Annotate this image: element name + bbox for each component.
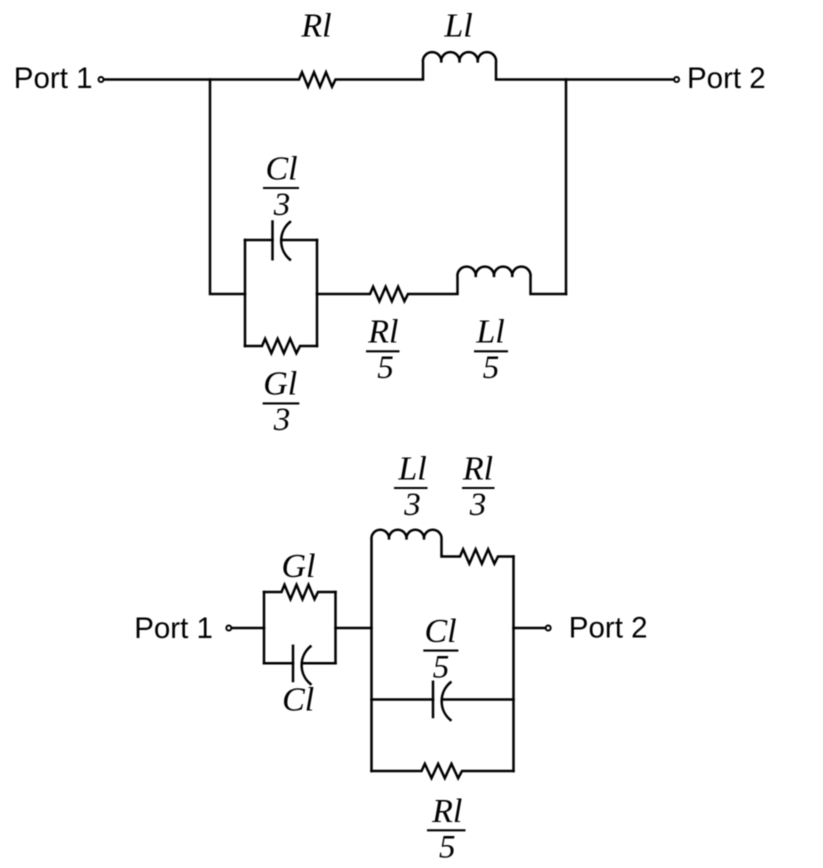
svg-text:Port 2: Port 2 — [569, 611, 648, 644]
svg-text:Rl: Rl — [367, 314, 398, 351]
svg-text:Cl: Cl — [265, 150, 297, 187]
svg-text:Rl: Rl — [431, 793, 462, 830]
svg-text:3: 3 — [469, 487, 487, 523]
svg-text:Rl: Rl — [462, 450, 493, 487]
svg-text:Cl: Cl — [282, 682, 314, 719]
svg-text:5: 5 — [433, 649, 450, 685]
svg-text:Gl: Gl — [263, 366, 297, 403]
svg-text:5: 5 — [439, 829, 456, 865]
svg-text:Port 2: Port 2 — [687, 62, 766, 95]
svg-text:5: 5 — [377, 350, 394, 386]
svg-text:3: 3 — [403, 487, 421, 523]
svg-text:Ll: Ll — [397, 450, 426, 487]
svg-text:Port 1: Port 1 — [134, 612, 213, 645]
svg-text:3: 3 — [273, 187, 291, 223]
svg-text:3: 3 — [273, 402, 291, 438]
svg-text:Ll: Ll — [443, 8, 472, 45]
svg-text:Rl: Rl — [300, 8, 331, 45]
svg-text:Gl: Gl — [282, 548, 316, 585]
svg-text:5: 5 — [483, 350, 500, 386]
svg-text:Port 1: Port 1 — [14, 62, 93, 95]
svg-text:Cl: Cl — [424, 613, 456, 650]
svg-text:Ll: Ll — [475, 314, 504, 351]
